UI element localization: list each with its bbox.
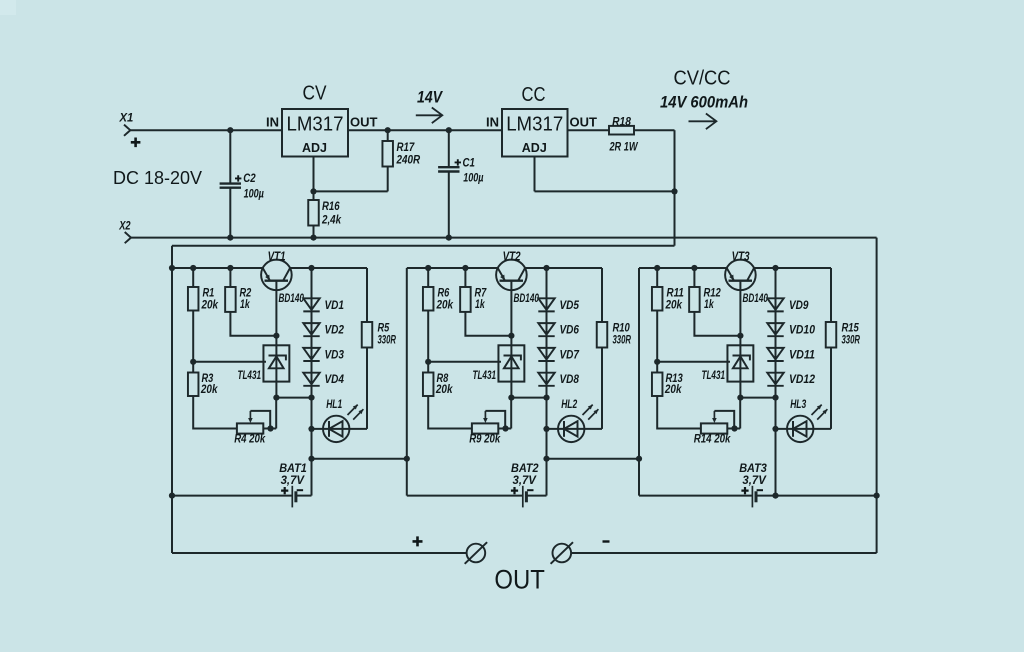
capacitor C1 (438, 167, 459, 171)
wire BAT3 minus to right edge (776, 495, 877, 497)
LED HL1 (323, 405, 363, 442)
svg-text:3,7V: 3,7V (281, 473, 305, 487)
node rail R12 junction (691, 265, 697, 271)
diode VD2 (303, 323, 319, 335)
resistor R1 (188, 287, 199, 311)
node base TL431 junction ch2 (508, 333, 514, 339)
svg-text:R18: R18 (612, 114, 631, 128)
wire R9 up to anode node (510, 398, 512, 429)
svg-text:R9 20k: R9 20k (469, 434, 500, 446)
diode VD11 (767, 348, 783, 360)
wiper of R4 (249, 411, 251, 419)
wire channel 1 emitter rail (172, 267, 367, 269)
wire R4 up to anode node (275, 398, 277, 429)
node LED cathode junction ch1 (308, 426, 314, 432)
node X2-C2 junction (227, 235, 233, 241)
resistor R8 (423, 373, 434, 397)
svg-text:CV: CV (303, 83, 328, 105)
node CC ADJ junction (671, 188, 677, 194)
terminal X2 connector (125, 232, 131, 243)
svg-text:CV/CC: CV/CC (674, 68, 731, 90)
resistor R11 (652, 287, 663, 311)
svg-text:HL2: HL2 (561, 397, 577, 411)
arrow 14V direction (416, 108, 443, 124)
LED HL3 (787, 405, 827, 442)
wire R4 output (263, 428, 276, 430)
wire LED anode horizontal ch1 (312, 428, 368, 430)
wire C2 branch down (229, 130, 231, 183)
svg-text:330R: 330R (378, 332, 397, 346)
minus sign at OUT (603, 540, 610, 542)
resistor R15 (826, 322, 837, 348)
node rail R1 junction (190, 265, 196, 271)
minus sign at BAT3 (757, 489, 763, 491)
wire R6 to R8 (427, 311, 429, 373)
svg-text:1k: 1k (240, 297, 251, 311)
svg-text:20k: 20k (201, 298, 220, 312)
wire R3 to pot (193, 396, 237, 429)
wire channel 2 left edge (406, 268, 408, 496)
svg-text:HL3: HL3 (790, 397, 806, 411)
wire R15 to LED anode (830, 348, 832, 429)
svg-text:R4 20k: R4 20k (234, 434, 265, 446)
svg-text:C1: C1 (463, 155, 476, 169)
wire battery series link ch1 (312, 458, 407, 460)
node battery row junction ch1 (308, 456, 314, 462)
wire R6 top lead (427, 268, 429, 287)
terminal X1 connector (124, 125, 130, 136)
svg-text:20k: 20k (664, 382, 683, 396)
node TL431 anode junction ch1 (273, 395, 279, 401)
wire R18 to output corner (634, 129, 675, 131)
wire TL431 cathode ch2 (510, 336, 512, 398)
wire R5 to LED anode (366, 348, 368, 429)
plus sign at BAT3 (741, 487, 748, 494)
svg-text:R17: R17 (397, 140, 416, 154)
diode VD4 (303, 373, 319, 385)
node TL431 anode junction ch3 (737, 395, 743, 401)
node TL431 anode junction ch2 (508, 395, 514, 401)
node diode chain bottom ch1 (308, 395, 314, 401)
plus sign at BAT2 (511, 487, 518, 494)
svg-text:BD140: BD140 (279, 293, 305, 305)
wire R12 to base node (694, 312, 740, 336)
svg-text:VT3: VT3 (732, 250, 750, 264)
wire column to battery ch1 (311, 398, 313, 496)
transistor VT3 (725, 260, 756, 291)
svg-text:100µ: 100µ (244, 188, 265, 200)
node ADJ CV junction (310, 188, 316, 194)
wire X2 rail (131, 237, 877, 239)
wire R14 output (727, 428, 740, 430)
resistor R5 (362, 322, 373, 348)
transistor VT1 (261, 260, 292, 291)
wire rail to R10 (601, 268, 603, 322)
wire R17 top lead (387, 130, 389, 141)
svg-text:14V: 14V (417, 88, 443, 107)
wire VT2 base down (510, 281, 512, 336)
svg-text:2,4k: 2,4k (321, 212, 342, 226)
IC TL431 ch3 (727, 345, 753, 381)
node base TL431 junction ch1 (273, 333, 279, 339)
svg-text:ADJ: ADJ (522, 141, 547, 155)
svg-text:OUT: OUT (350, 115, 378, 130)
svg-text:1k: 1k (704, 297, 715, 311)
wire OUT plus lead (172, 552, 467, 554)
node diode chain bottom ch3 (772, 395, 778, 401)
wire R12 top lead (693, 268, 695, 287)
node ref divider junction ch2 (425, 359, 431, 365)
transistor VT2 (496, 260, 527, 291)
svg-text:R14 20k: R14 20k (694, 434, 731, 446)
wire R17 to ADJ horizontal (314, 190, 388, 192)
node BAT1 link junction (404, 456, 410, 462)
wire R11 top lead (656, 268, 658, 287)
wire TL431 ref input ch3 (657, 361, 730, 363)
node rail diode chain junction ch2 (543, 265, 549, 271)
node rail diode chain junction ch3 (772, 265, 778, 271)
wire channel 3 left edge (638, 268, 640, 496)
node rail diode chain junction ch1 (308, 265, 314, 271)
IC TL431 ch1 (263, 345, 289, 381)
resistor R6 (423, 287, 434, 311)
battery BAT3 (752, 486, 756, 508)
wire R8 to pot (428, 396, 472, 429)
potentiometer R14 (701, 423, 727, 433)
svg-text:VD6: VD6 (560, 325, 580, 337)
wire anode node to diode chain ch2 (511, 397, 546, 399)
wiper of R9 (484, 411, 486, 419)
svg-text:HL1: HL1 (326, 397, 342, 411)
wire column to battery ch2 (546, 398, 548, 496)
svg-text:20k: 20k (435, 382, 454, 396)
op-amp U2 regulator LM317 CC box (502, 109, 568, 157)
wiper loop wire R9 (485, 411, 505, 429)
plus sign at OUT (413, 536, 423, 546)
svg-text:20k: 20k (436, 298, 455, 312)
svg-text:2R 1W: 2R 1W (609, 139, 639, 153)
plus sign at C2 (235, 175, 241, 181)
op-amp U1 regulator LM317 CV box (282, 109, 348, 157)
svg-text:LM317: LM317 (506, 114, 563, 136)
svg-text:TL431: TL431 (702, 370, 726, 382)
node rail to left edge junction (169, 265, 175, 271)
IC TL431 ch2 (498, 345, 524, 381)
wire rail to R5 (366, 268, 368, 322)
diode VD10 (767, 323, 783, 335)
diode VD1 (303, 298, 319, 310)
svg-text:VD7: VD7 (560, 349, 580, 361)
wire VT1 base down (275, 281, 277, 336)
svg-text:3,7V: 3,7V (513, 473, 537, 487)
svg-text:VD5: VD5 (560, 300, 580, 312)
svg-text:LM317: LM317 (287, 114, 344, 136)
svg-text:IN: IN (486, 115, 499, 130)
wire LED anode horizontal ch3 (776, 428, 832, 430)
terminal OUT plus (465, 542, 487, 564)
node right edge battery junction (874, 493, 880, 499)
wire anode node to diode chain ch3 (740, 397, 775, 399)
wire C2 to X2 rail (229, 188, 231, 238)
wire CC output down (674, 130, 676, 246)
wire CC ADJ horizontal (535, 190, 675, 192)
plus sign at C1 (455, 159, 461, 165)
node LED cathode junction ch2 (543, 426, 549, 432)
wire CC OUT to R18 (568, 129, 610, 131)
wiper loop wire R4 (250, 411, 270, 429)
resistor R16 (308, 200, 319, 226)
wire diode chain ch2 (546, 268, 548, 398)
node base TL431 junction ch3 (737, 333, 743, 339)
resistor R12 (689, 287, 700, 312)
wire R7 top lead (464, 268, 466, 287)
wire lower box left edge (171, 246, 173, 553)
svg-text:ADJ: ADJ (302, 141, 327, 155)
wiper loop wire R14 (714, 411, 734, 429)
svg-text:DC 18-20V: DC 18-20V (113, 168, 202, 188)
node rail R7 junction (462, 265, 468, 271)
wire diode chain ch3 (775, 268, 777, 398)
node IN junction with C2 (227, 127, 233, 133)
terminal OUT minus (551, 542, 573, 564)
svg-text:VD2: VD2 (325, 325, 345, 337)
svg-text:BD140: BD140 (743, 293, 769, 305)
plus sign at BAT1 (281, 487, 288, 494)
svg-text:X1: X1 (119, 111, 134, 125)
svg-text:R16: R16 (322, 199, 340, 213)
diode VD6 (538, 323, 554, 335)
node ref divider junction ch3 (654, 359, 660, 365)
svg-text:VD3: VD3 (325, 349, 345, 361)
wire R13 to pot (657, 396, 701, 429)
minus sign at BAT1 (297, 489, 303, 491)
wire R7 to base node (465, 312, 511, 336)
svg-text:VT1: VT1 (268, 250, 286, 264)
svg-text:IN: IN (266, 115, 279, 130)
minus sign at BAT2 (527, 489, 533, 491)
resistor R7 (460, 287, 471, 312)
node BAT3 column junction (772, 493, 778, 499)
wire to BAT2 plus (407, 495, 523, 497)
wire battery series link ch2 (547, 458, 640, 460)
wire R11 to R13 (656, 311, 658, 373)
svg-text:240R: 240R (396, 153, 421, 167)
resistor R13 (652, 373, 663, 397)
arrow output direction (689, 114, 717, 130)
svg-text:20k: 20k (200, 382, 219, 396)
diode VD3 (303, 348, 319, 360)
node left edge BAT1 junction (169, 493, 175, 499)
wire R2 to base node (230, 312, 276, 336)
wire from BAT1 minus (296, 495, 312, 497)
wire right edge down (876, 238, 878, 553)
diode VD12 (767, 373, 783, 385)
svg-text:3,7V: 3,7V (742, 473, 766, 487)
wiper of R14 (713, 411, 715, 419)
node X2-R16 junction (310, 235, 316, 241)
resistor R2 (225, 287, 236, 312)
wire C1 branch down (448, 130, 450, 167)
svg-text:VD10: VD10 (789, 325, 816, 337)
wire TL431 cathode ch1 (275, 336, 277, 398)
wire R14 up to anode node (739, 398, 741, 429)
wire TL431 ref input ch2 (428, 361, 501, 363)
resistor R10 (597, 322, 608, 348)
wire lower box top edge (172, 245, 675, 247)
node LED cathode junction ch3 (772, 426, 778, 432)
wire LM317 CV OUT to CC IN (348, 129, 502, 131)
svg-text:1k: 1k (475, 297, 486, 311)
battery BAT1 (292, 486, 296, 508)
node R17 top junction (385, 127, 391, 133)
svg-text:BD140: BD140 (514, 293, 540, 305)
svg-text:330R: 330R (613, 332, 632, 346)
wire anode node to diode chain ch1 (276, 397, 311, 399)
svg-text:VD11: VD11 (789, 349, 815, 361)
diode VD8 (538, 373, 554, 385)
svg-text:CC: CC (522, 84, 546, 106)
wire R16 bottom to X2 rail (313, 226, 315, 238)
wire diode chain ch1 (311, 268, 313, 398)
wire R1 top lead (192, 268, 194, 287)
wire R9 output (498, 428, 511, 430)
wire TL431 ref input ch1 (193, 361, 266, 363)
resistor R17 (382, 141, 393, 167)
node BAT2 link junction (636, 456, 642, 462)
svg-text:X2: X2 (118, 218, 130, 232)
wire LED anode horizontal ch2 (547, 428, 603, 430)
resistor R18 (609, 126, 634, 135)
node rail R11 junction (654, 265, 660, 271)
wire TL431 cathode ch3 (739, 336, 741, 398)
wire to BAT3 plus (639, 495, 752, 497)
wire OUT minus lead (571, 552, 877, 554)
wire R1 to R3 (192, 311, 194, 373)
wire ADJ pin of CV down (313, 157, 315, 192)
node R9 wiper junction (502, 425, 508, 431)
node X2-C1 junction (446, 235, 452, 241)
potentiometer R9 (472, 423, 498, 433)
node C1 junction (446, 127, 452, 133)
svg-text:VD9: VD9 (789, 300, 809, 312)
svg-text:20k: 20k (665, 298, 684, 312)
diode VD7 (538, 348, 554, 360)
wire to BAT1 plus (172, 495, 292, 497)
node ref divider junction ch1 (190, 359, 196, 365)
wire VT3 base down (739, 281, 741, 336)
wire column to battery ch3 (775, 398, 777, 496)
svg-text:330R: 330R (842, 332, 861, 346)
node R14 wiper junction (731, 425, 737, 431)
potentiometer R4 (237, 423, 263, 433)
capacitor C2 (220, 184, 241, 188)
wire channel 3 emitter rail (639, 267, 831, 269)
plus sign at X1 (131, 138, 141, 148)
svg-text:C2: C2 (243, 171, 256, 185)
svg-text:VD8: VD8 (560, 374, 580, 386)
diode VD5 (538, 298, 554, 310)
svg-text:TL431: TL431 (473, 370, 497, 382)
svg-text:TL431: TL431 (238, 370, 262, 382)
svg-text:100µ: 100µ (463, 172, 484, 184)
LED HL2 (558, 405, 598, 442)
svg-text:VD1: VD1 (325, 300, 345, 312)
wire ADJ pin of CC down (534, 157, 536, 192)
svg-text:VD12: VD12 (789, 374, 816, 386)
svg-text:VD4: VD4 (325, 374, 345, 386)
node rail R2 junction (227, 265, 233, 271)
wire C1 to X2 rail (448, 171, 450, 237)
wire R2 top lead (229, 268, 231, 287)
wire channel 2 emitter rail (407, 267, 602, 269)
wire rail to R15 (830, 268, 832, 322)
wire X1 to LM317 IN (130, 129, 282, 131)
resistor R3 (188, 373, 199, 397)
node battery row junction ch2 (543, 456, 549, 462)
node R4 wiper junction (267, 425, 273, 431)
svg-text:VT2: VT2 (503, 250, 521, 264)
node diode chain bottom ch2 (543, 395, 549, 401)
node rail R6 junction (425, 265, 431, 271)
diode VD9 (767, 298, 783, 310)
svg-text:OUT: OUT (494, 565, 545, 595)
svg-text:14V 600mAh: 14V 600mAh (660, 92, 748, 111)
wire R10 to LED anode (601, 348, 603, 429)
wire from BAT2 minus (526, 495, 546, 497)
wire R17 bottom to ADJ node (387, 167, 389, 192)
svg-text:OUT: OUT (570, 115, 598, 130)
wire from BAT3 minus (756, 495, 776, 497)
wire R16 top lead (313, 191, 315, 200)
battery BAT2 (523, 486, 527, 508)
